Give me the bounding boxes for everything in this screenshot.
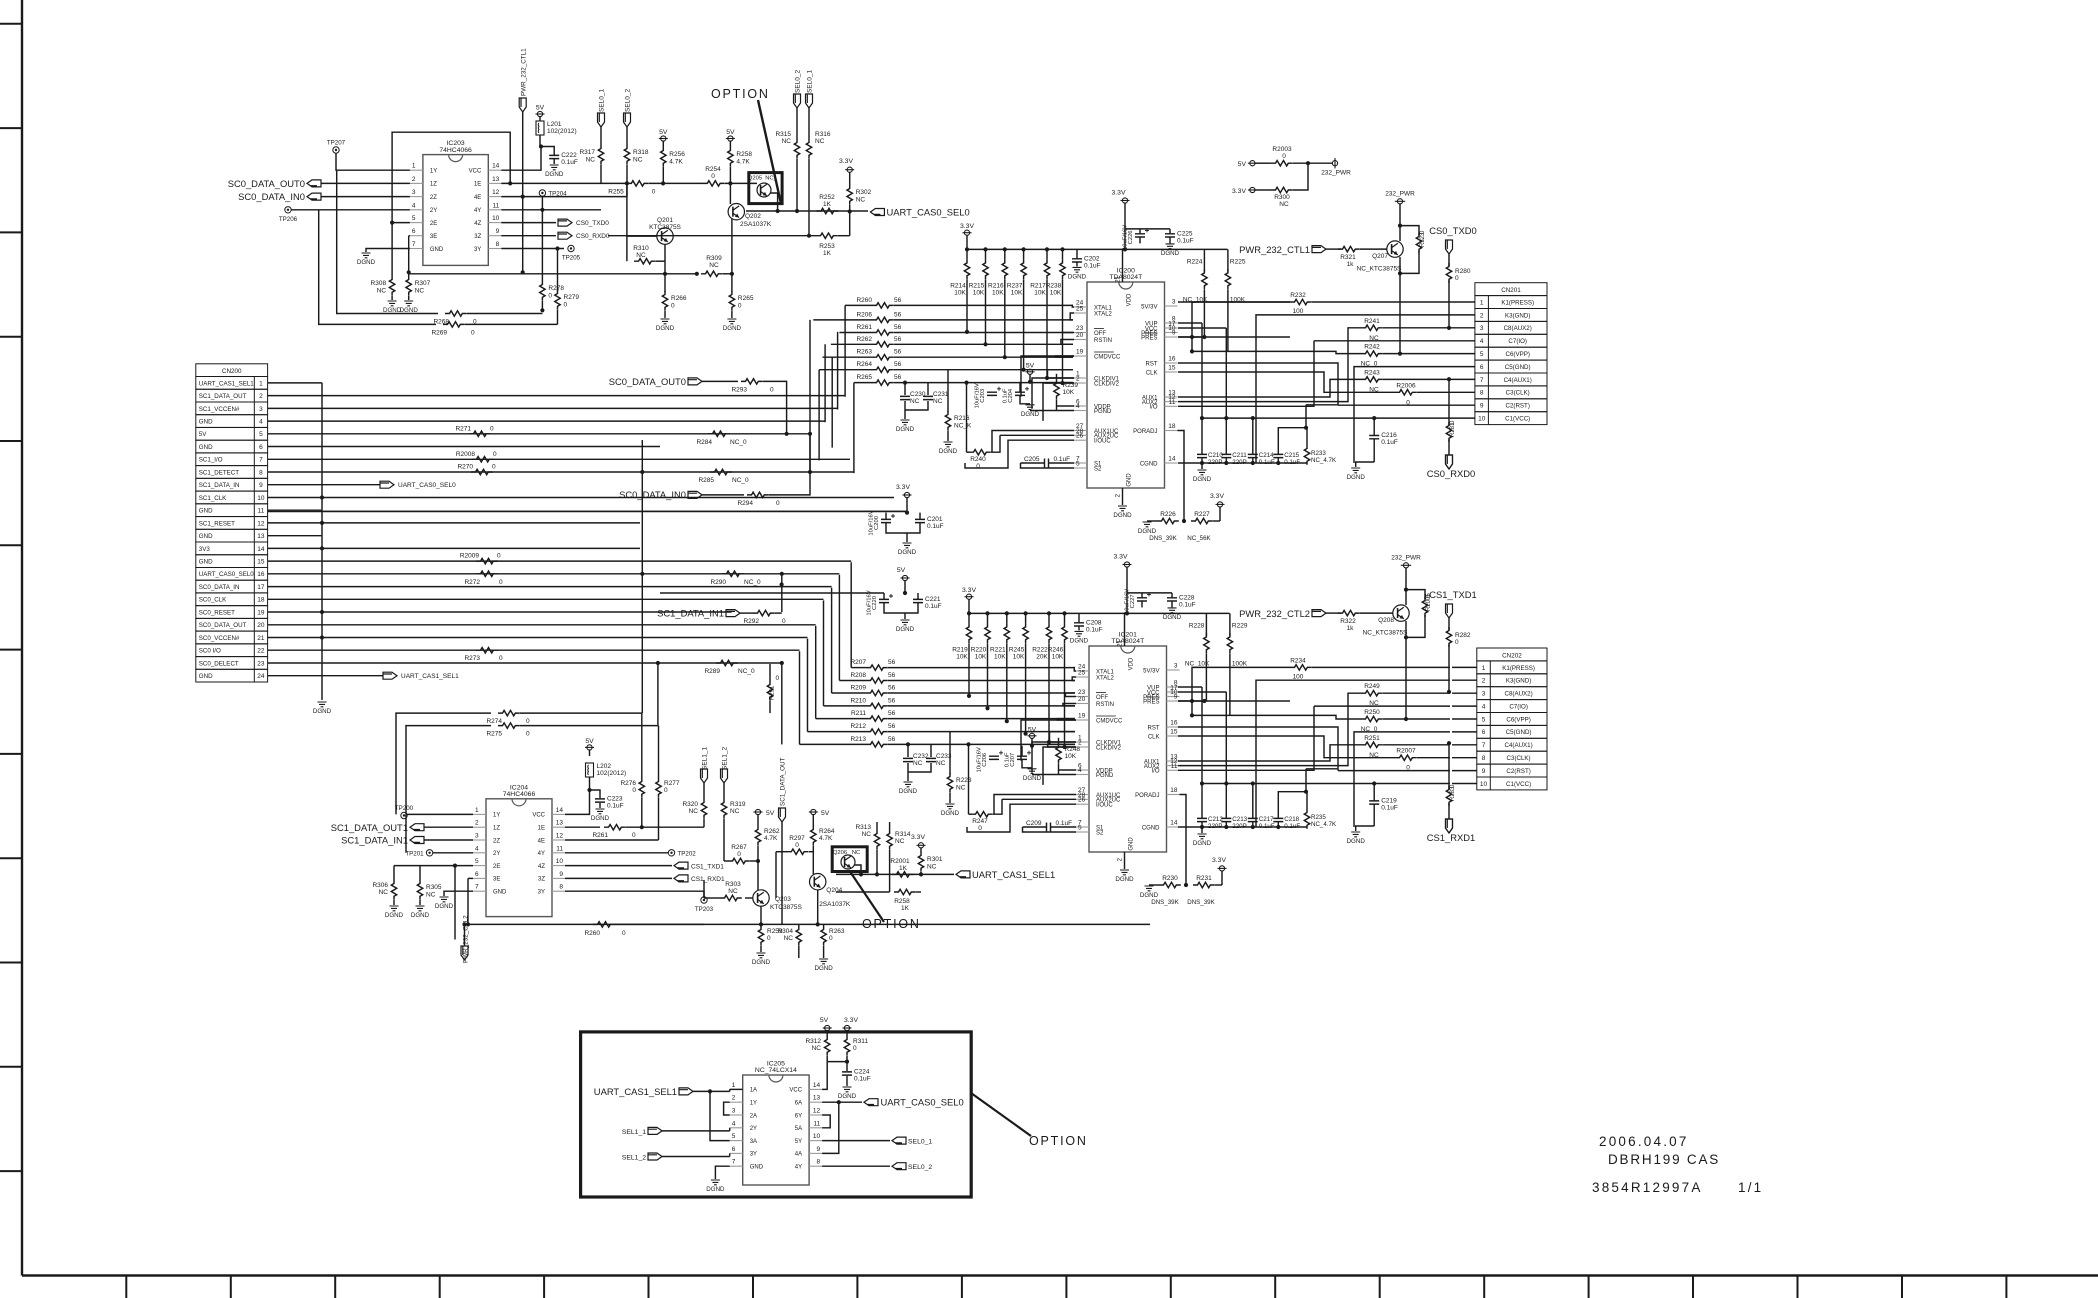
svg-text:4Y: 4Y — [538, 851, 545, 857]
ground DGND — [1166, 244, 1175, 249]
wire IC201 left pin feeders — [967, 720, 1076, 832]
resistor R302 NC — [849, 172, 851, 185]
junction TXD row3 — [1447, 690, 1451, 694]
junction R315 UART node — [795, 209, 799, 213]
svg-text:0: 0 — [664, 787, 668, 794]
resistor None — [887, 830, 892, 850]
svg-text:220P: 220P — [1232, 823, 1246, 830]
svg-text:R270: R270 — [457, 464, 473, 471]
junction TXD row3 — [1447, 326, 1451, 330]
svg-text:R304: R304 — [777, 928, 793, 935]
svg-text:R221: R221 — [990, 646, 1006, 653]
svg-text:3.3V: 3.3V — [962, 587, 976, 594]
svg-text:3Y: 3Y — [474, 247, 481, 253]
svg-text:3: 3 — [1174, 663, 1178, 670]
capacitor C224 0.1uF — [842, 1072, 852, 1075]
svg-text:R313: R313 — [855, 824, 871, 831]
wire pin13 branch to pin9 — [822, 1102, 839, 1153]
wire TP204 node down to R278 — [541, 210, 543, 281]
wire R260 long net — [465, 923, 705, 925]
resistor R278 0 — [540, 281, 545, 301]
svg-text:R301: R301 — [927, 856, 943, 863]
resistor None — [634, 259, 656, 264]
svg-text:15: 15 — [1168, 365, 1176, 372]
ground DGND — [1075, 631, 1084, 636]
svg-text:SC0_CLK: SC0_CLK — [199, 597, 227, 604]
svg-text:Q207: Q207 — [1372, 253, 1388, 260]
svg-text:R233: R233 — [1311, 450, 1326, 457]
resistor R308 NC — [389, 276, 394, 296]
svg-text:3Y: 3Y — [750, 1152, 757, 1158]
svg-text:3.3V: 3.3V — [1210, 493, 1224, 500]
resistor R316 NC — [808, 108, 810, 139]
svg-text:0.1uF: 0.1uF — [1084, 262, 1101, 269]
resistor R292 0 — [753, 610, 775, 615]
svg-text:19: 19 — [1076, 349, 1084, 356]
ground DGND — [904, 782, 913, 787]
resistor R228 NC_10K — [1205, 613, 1207, 635]
svg-text:3: 3 — [1172, 299, 1176, 306]
ground DGND — [757, 953, 766, 958]
wire IC200 GND pin bottom — [1122, 488, 1124, 505]
svg-text:1Z: 1Z — [493, 826, 500, 832]
svg-text:OFF: OFF — [1096, 695, 1108, 701]
svg-text:232_PWR: 232_PWR — [1321, 170, 1351, 177]
ground DGND — [318, 702, 327, 707]
resistor R227 — [1191, 518, 1213, 523]
junction PWR_232_CTL1 at pin12 net — [521, 195, 525, 199]
svg-text:R262: R262 — [856, 336, 872, 343]
resistor None — [1338, 610, 1360, 615]
power 5V — [1029, 733, 1034, 738]
svg-text:R291: R291 — [770, 685, 776, 700]
svg-text:C220: C220 — [872, 596, 878, 610]
ground DGND — [596, 809, 605, 814]
resistor R268 0 — [445, 311, 467, 316]
wire PRES nets — [1178, 336, 1204, 338]
svg-text:Q201: Q201 — [657, 217, 673, 224]
svg-text:DGND: DGND — [896, 426, 915, 433]
wire Q204 emitter — [817, 890, 819, 924]
svg-text:C218: C218 — [1284, 816, 1299, 823]
svg-text:3.3V: 3.3V — [1232, 188, 1246, 195]
resistor R317 NC — [600, 127, 602, 145]
svg-text:3.3V: 3.3V — [1212, 857, 1226, 864]
svg-text:NC: NC — [730, 808, 740, 815]
wire CN200 pin stubs — [268, 383, 323, 676]
resistor R265 0 — [729, 291, 734, 311]
svg-text:DGND: DGND — [1070, 637, 1089, 644]
capacitor C213 220P — [1225, 811, 1227, 818]
wire R269 net from TP206 line — [319, 210, 436, 325]
svg-text:R284: R284 — [696, 439, 712, 446]
wire RST to row9 — [1178, 363, 1338, 405]
wire stair verticals SC1 bank from CN200 rows — [800, 562, 852, 744]
resistor R284 NC_0 — [708, 431, 730, 436]
svg-text:R242: R242 — [1364, 344, 1380, 351]
power 5V — [587, 745, 592, 750]
node UART_CAS1_SEL1 tag at CN200 pin 24 — [322, 675, 383, 677]
test point TP201 — [426, 850, 432, 856]
node SEL0_2 tag IC205 — [892, 1163, 906, 1170]
svg-text:R230: R230 — [1162, 875, 1178, 882]
svg-text:UART_CAS1_SEL1: UART_CAS1_SEL1 — [972, 869, 1055, 880]
capacitor None — [1273, 454, 1283, 457]
capacitor C202/C208 0.1uF — [1076, 249, 1078, 258]
resistor None — [816, 233, 838, 238]
wire IC201 3.3V rail — [969, 612, 1230, 614]
svg-text:14: 14 — [1170, 820, 1178, 827]
svg-text:NC: NC — [913, 760, 923, 767]
svg-text:R231: R231 — [1196, 875, 1212, 882]
test point TP202 — [668, 850, 674, 856]
ground DGND — [388, 301, 397, 306]
capacitor C222 0.1uF — [541, 147, 554, 156]
svg-text:5V: 5V — [1238, 161, 1247, 168]
svg-text:NC: NC — [910, 398, 920, 405]
svg-text:GND: GND — [199, 444, 213, 451]
svg-text:NC_KTC3875S: NC_KTC3875S — [1363, 630, 1408, 637]
svg-text:R261: R261 — [856, 324, 872, 331]
svg-text:CLKDIV2: CLKDIV2 — [1096, 745, 1122, 751]
svg-text:17: 17 — [257, 584, 265, 591]
svg-text:VCC: VCC — [532, 813, 545, 819]
junction IC203 pin13 node — [508, 181, 512, 185]
test point TP204 — [539, 190, 545, 196]
svg-text:0: 0 — [976, 463, 980, 470]
svg-text:TP201: TP201 — [405, 850, 424, 857]
capacitor None — [1197, 818, 1207, 821]
resistor R235 NC_4.7K — [1304, 809, 1309, 829]
wire bundle vertical 642 — [641, 440, 643, 574]
svg-text:C209: C209 — [1026, 820, 1042, 827]
svg-text:DNS_39K: DNS_39K — [1151, 899, 1179, 906]
resistor R223 NC — [947, 773, 952, 793]
transistor Q201 KTC3875S — [657, 228, 673, 244]
svg-text:9: 9 — [259, 482, 263, 489]
svg-text:102(2012): 102(2012) — [597, 770, 627, 777]
test point TP205 — [568, 245, 574, 251]
svg-text:R289: R289 — [704, 668, 720, 675]
wire row10 VCC net — [1202, 417, 1450, 419]
svg-text:4: 4 — [412, 202, 416, 209]
resistor R206 56 — [872, 317, 894, 322]
resistor None — [728, 858, 750, 863]
power 5V — [755, 809, 760, 814]
svg-text:TP206: TP206 — [279, 216, 298, 223]
svg-text:R300: R300 — [1274, 194, 1290, 201]
resistor R263 56 — [872, 355, 894, 360]
wire TP201 to IC204 pin4 — [433, 852, 473, 854]
power 5V — [1250, 161, 1255, 166]
svg-text:R224: R224 — [1187, 258, 1203, 265]
svg-text:R272: R272 — [464, 579, 480, 586]
resistor R282 0 — [1448, 618, 1450, 630]
resistor R311 0 — [846, 1031, 848, 1036]
svg-text:11: 11 — [493, 202, 500, 209]
svg-text:1K: 1K — [901, 905, 910, 912]
svg-text:0: 0 — [1455, 275, 1459, 282]
svg-text:C7(IO): C7(IO) — [1509, 704, 1528, 711]
svg-text:R308: R308 — [371, 280, 387, 287]
svg-text:R210: R210 — [850, 697, 866, 704]
ground DGND — [1120, 870, 1129, 875]
wire VCC net — [1178, 327, 1226, 329]
svg-text:R256: R256 — [669, 151, 685, 158]
svg-text:C6(VPP): C6(VPP) — [1505, 351, 1529, 358]
wire IC203 pin6 down to R307 — [408, 236, 410, 273]
svg-text:23: 23 — [1076, 325, 1084, 332]
svg-text:R232: R232 — [1290, 292, 1306, 299]
svg-text:PGND: PGND — [1094, 409, 1112, 415]
svg-text:1Y: 1Y — [493, 813, 500, 819]
svg-text:CN200: CN200 — [222, 368, 242, 375]
svg-text:4: 4 — [1482, 704, 1486, 711]
svg-text:TP205: TP205 — [562, 255, 581, 262]
wire Q202 emitter — [731, 219, 733, 274]
resistor None — [1361, 742, 1383, 747]
svg-text:R263: R263 — [856, 349, 872, 356]
svg-text:10: 10 — [492, 215, 500, 222]
junction R290 net — [780, 582, 784, 586]
svg-text:DGND: DGND — [313, 708, 332, 715]
svg-text:I/OUC: I/OUC — [1094, 439, 1111, 445]
svg-text:C216: C216 — [1381, 432, 1397, 439]
svg-text:R293: R293 — [731, 386, 747, 393]
svg-text:R223: R223 — [956, 777, 972, 784]
wire VUP net — [1178, 322, 1202, 324]
svg-text:5V: 5V — [199, 431, 207, 438]
svg-text:R321: R321 — [1340, 254, 1356, 261]
svg-text:6Y: 6Y — [795, 1113, 802, 1119]
svg-text:R229: R229 — [1232, 622, 1248, 629]
resistor R221 10K pull-up — [1005, 611, 1009, 615]
resistor None — [1361, 716, 1383, 721]
svg-text:15: 15 — [257, 559, 265, 566]
resistor R213 56 — [866, 742, 888, 747]
svg-text:SEL0_2: SEL0_2 — [795, 69, 802, 93]
capacitor C216 0.1uF — [1369, 436, 1379, 439]
capacitor C211 220P — [1225, 447, 1227, 454]
wire VDDP PGND nets — [1059, 769, 1077, 771]
svg-text:SEL0_1: SEL0_1 — [908, 1139, 932, 1146]
wire R294 riser to row5 — [769, 435, 810, 495]
connector CN200 — [196, 364, 268, 377]
resistor R212 56 — [866, 729, 888, 734]
wire base net into Q205 box — [725, 182, 757, 184]
svg-text:3: 3 — [1480, 325, 1484, 332]
svg-text:R294: R294 — [737, 500, 753, 507]
wire cap branch IC201 — [1127, 592, 1172, 594]
svg-text:1k: 1k — [1347, 625, 1355, 632]
junction row5 R294 riser — [808, 432, 812, 436]
svg-text:R245: R245 — [1009, 646, 1025, 653]
svg-text:3A: 3A — [750, 1139, 757, 1145]
svg-text:10: 10 — [257, 495, 265, 502]
svg-text:9: 9 — [496, 228, 500, 235]
capacitor C214 0.1uF — [1252, 447, 1254, 454]
svg-text:RST: RST — [1148, 725, 1160, 731]
svg-text:7: 7 — [475, 884, 479, 891]
svg-text:NC: NC — [1279, 201, 1289, 208]
wire long base bus y=273 — [409, 273, 697, 275]
svg-text:2: 2 — [1482, 678, 1486, 685]
resistor None — [703, 181, 725, 186]
svg-text:C3(CLK): C3(CLK) — [1506, 390, 1530, 397]
ground DGND — [901, 620, 910, 625]
svg-text:21: 21 — [257, 635, 265, 642]
svg-text:CLKDIV2: CLKDIV2 — [1094, 381, 1120, 387]
svg-text:PGND: PGND — [1096, 773, 1114, 779]
wire pin8 to SEL0_2 — [822, 1165, 890, 1167]
wire OPTION pointer IC205 — [971, 1093, 1031, 1136]
node 232_PWR terminal — [1332, 161, 1337, 166]
wire row9 left extension — [1306, 404, 1338, 406]
svg-text:R207: R207 — [850, 659, 866, 666]
svg-text:R319: R319 — [730, 801, 746, 808]
junction pin6 vertical — [407, 270, 411, 274]
svg-text:4Y: 4Y — [795, 1165, 802, 1171]
svg-text:2Y: 2Y — [493, 851, 500, 857]
svg-text:2Y: 2Y — [750, 1126, 757, 1132]
wire TP206 to IC203 pin4 — [291, 209, 410, 211]
svg-text:11: 11 — [556, 845, 563, 852]
wire VUP net — [1178, 686, 1202, 688]
wire L201 to IC203 VCC pin14 — [540, 135, 541, 147]
svg-text:C5(GND): C5(GND) — [1505, 364, 1531, 371]
power 3.3V — [1250, 187, 1255, 192]
wire IC204 pin8 net with TP203 — [565, 890, 700, 892]
wire IC203 pin12 net right — [501, 196, 627, 198]
svg-text:K3(GND): K3(GND) — [1506, 678, 1531, 685]
junction R258 node — [728, 181, 732, 185]
svg-text:DGND: DGND — [1115, 876, 1134, 883]
svg-text:5V: 5V — [1026, 362, 1035, 369]
border tick marks bottom — [126, 1276, 2006, 1298]
svg-text:CN202: CN202 — [1502, 652, 1522, 659]
wire L202 to IC204 VCC — [589, 777, 591, 790]
svg-text:R214: R214 — [950, 282, 966, 289]
capacitor C222 0.1uF — [549, 155, 559, 158]
svg-text:R250: R250 — [1364, 709, 1380, 716]
svg-text:SC0_RESET: SC0_RESET — [199, 609, 235, 616]
svg-text:C212: C212 — [1208, 816, 1223, 823]
svg-text:4: 4 — [732, 1120, 736, 1127]
svg-text:R314: R314 — [895, 831, 911, 838]
power 3.3V — [1217, 502, 1222, 507]
ground DGND — [903, 543, 912, 548]
svg-text:0: 0 — [632, 787, 636, 794]
wire emitter Q208 — [1405, 621, 1407, 637]
ground DGND — [843, 1087, 852, 1092]
svg-text:7: 7 — [1482, 742, 1486, 749]
svg-text:DGND: DGND — [1021, 411, 1040, 418]
svg-text:R307: R307 — [415, 280, 431, 287]
svg-text:0: 0 — [526, 718, 530, 725]
resistor None — [1361, 691, 1383, 696]
svg-text:3.3V: 3.3V — [1114, 554, 1128, 561]
wire row2 GND net — [1256, 680, 1450, 827]
transistor Q203 KTC3875S — [753, 890, 769, 906]
svg-text:DGND: DGND — [899, 788, 918, 795]
svg-text:56: 56 — [888, 672, 896, 679]
svg-text:R302: R302 — [856, 189, 872, 196]
capacitor C223 0.1uF — [590, 790, 601, 798]
svg-text:R290: R290 — [710, 579, 726, 586]
svg-text:0: 0 — [499, 655, 503, 662]
ground DGND — [901, 420, 910, 425]
wire bus to IC200 pins — [1046, 305, 1074, 383]
junction IC203 pin5 — [390, 221, 394, 225]
transistor Q204 2SA1037K — [810, 874, 826, 890]
svg-text:DGND: DGND — [1163, 614, 1182, 621]
node UART_CAS0_SEL0 tag at CN200 pin 9 — [322, 484, 380, 486]
svg-text:VDD: VDD — [1127, 293, 1133, 306]
svg-text:R234: R234 — [1290, 657, 1306, 664]
svg-text:3: 3 — [1482, 691, 1486, 698]
svg-text:K1(PRESS): K1(PRESS) — [1502, 665, 1535, 672]
svg-text:100K: 100K — [1232, 660, 1248, 667]
svg-text:1k: 1k — [1347, 261, 1355, 268]
wire pin2 to pin3 bracket — [724, 1102, 730, 1115]
svg-text:R266: R266 — [671, 295, 687, 302]
wire AUX1 to row7 — [1178, 379, 1361, 397]
svg-text:20: 20 — [1076, 332, 1084, 339]
svg-text:GND: GND — [1127, 473, 1133, 487]
svg-text:TDA8024T: TDA8024T — [1111, 638, 1144, 645]
wire collector Q208 — [1405, 568, 1407, 590]
svg-text:16: 16 — [257, 571, 265, 578]
svg-text:C2(RST): C2(RST) — [1506, 768, 1530, 775]
option box outline — [581, 1032, 972, 1197]
power 3.3V — [964, 230, 969, 235]
wire 5V/3V net — [1178, 826, 1307, 828]
capacitor None — [923, 396, 933, 399]
transistor Q208 NC_KTC3875S — [1405, 590, 1407, 605]
svg-text:K1(PRESS): K1(PRESS) — [1501, 299, 1534, 306]
svg-text:4A: 4A — [795, 1152, 802, 1158]
resistor R265b 0 — [731, 274, 733, 292]
resistor None — [391, 880, 396, 900]
resistor R266 0 — [664, 274, 666, 292]
svg-text:R258: R258 — [736, 151, 752, 158]
capacitor C232 NC — [906, 742, 910, 746]
power 5V — [661, 136, 666, 141]
svg-text:PWR_232_CTL1: PWR_232_CTL1 — [1239, 244, 1310, 255]
svg-text:NC: NC — [633, 157, 643, 164]
svg-text:NC_56K: NC_56K — [1187, 535, 1211, 542]
wire IC204 pin9 to CS1_RXD1 — [565, 877, 672, 879]
svg-text:TP207: TP207 — [327, 140, 346, 147]
svg-text:C1(VCC): C1(VCC) — [1505, 416, 1530, 423]
junction VCC node — [539, 144, 543, 148]
wire C215 riser — [1278, 405, 1306, 447]
svg-text:DGND: DGND — [1193, 476, 1212, 483]
junction R306 on pin5 net — [394, 865, 455, 867]
svg-text:C205: C205 — [1024, 456, 1040, 463]
svg-text:1K: 1K — [823, 250, 832, 257]
resistor R262 56 — [872, 342, 894, 347]
op-amp IC200 TDA8024T body — [1087, 282, 1165, 488]
svg-text:1: 1 — [732, 1082, 736, 1089]
wire cap branch IC200 — [1125, 228, 1170, 230]
wire R274 R275 top nets — [396, 713, 491, 814]
junction R278 to R268 net — [540, 308, 544, 312]
capacitor C205/C209 0.1uF S1 — [1023, 826, 1047, 828]
svg-text:NC: NC — [415, 288, 425, 295]
wire emitter Q207 — [1399, 257, 1401, 273]
svg-text:DGND: DGND — [591, 815, 610, 822]
